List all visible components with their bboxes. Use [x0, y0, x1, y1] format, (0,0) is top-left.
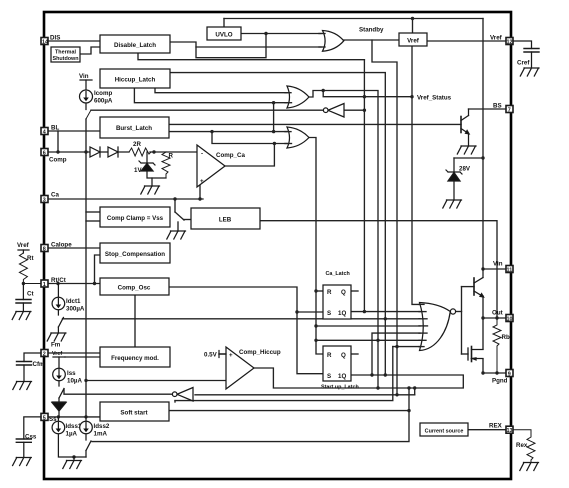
- net stub Vref for Iss: [52, 351, 65, 368]
- Stop_Compensation block: [100, 243, 170, 263]
- wire NOR output: [456, 311, 462, 313]
- ground under Rex: [520, 463, 539, 471]
- or-gate U-burst (2-input OR): [287, 127, 309, 148]
- svg-text:Fm: Fm: [51, 342, 61, 349]
- wire Standby vertical bus: [372, 40, 397, 395]
- wire MOSFET source to Pgnd: [482, 359, 484, 373]
- svg-text:DIS: DIS: [50, 35, 60, 42]
- svg-text:28V: 28V: [459, 166, 471, 173]
- wire Hiccup_Latch bottom tap 2 to hiccup OR: [134, 86, 287, 103]
- Start up_Latch block: [321, 346, 359, 391]
- current source Icomp 600uA: [79, 73, 113, 119]
- ground under Css: [13, 458, 32, 466]
- wire DIS pin to Disable_Latch: [48, 40, 100, 42]
- svg-text:14: 14: [42, 40, 48, 46]
- wire soft start top line: [175, 347, 393, 401]
- wire comp node to comparator: [150, 151, 197, 153]
- pin 1 Rt/Ct: [41, 277, 66, 288]
- svg-text:Thermal: Thermal: [55, 50, 76, 56]
- wire Out pin line: [483, 317, 505, 319]
- external Vref stub for Rt: [17, 242, 30, 253]
- wire soft-start control bus: [92, 388, 409, 442]
- Current source block: [420, 423, 468, 436]
- svg-text:Vref: Vref: [52, 351, 62, 357]
- wire Calope pin to Stop_Compensation: [48, 247, 100, 249]
- wire NOR input 7: [393, 346, 420, 348]
- svg-text:10µA: 10µA: [67, 378, 82, 385]
- svg-text:10: 10: [507, 317, 513, 323]
- svg-text:Rb: Rb: [502, 334, 510, 341]
- comparator Comp_Hiccup: [204, 347, 281, 389]
- Comp Clamp block: [100, 207, 170, 227]
- Comp_Osc block: [100, 278, 169, 295]
- comparator Comp_Cs: [197, 145, 245, 187]
- ground under Idss: [63, 457, 82, 469]
- nor-gate U-drv (7-input NOR driving output stage): [420, 303, 456, 351]
- capacitor Cfm on Fm pin: [17, 353, 46, 381]
- svg-text:Vref: Vref: [17, 242, 30, 249]
- transistor M1 output mosfet: [468, 347, 483, 362]
- wire zener 28V top: [454, 157, 483, 159]
- svg-text:Ca: Ca: [51, 192, 59, 199]
- Frequency mod block: [100, 347, 170, 367]
- svg-text:Rex: Rex: [516, 442, 528, 449]
- Vref regulator block: [399, 33, 427, 46]
- svg-text:Comp_Ca: Comp_Ca: [216, 152, 245, 159]
- svg-text:Vref_Status: Vref_Status: [417, 95, 452, 102]
- thermal shutdown block: [51, 47, 80, 62]
- wire NOR input 6: [316, 339, 420, 341]
- or-gate U-hiccup (2-input OR mid): [287, 86, 309, 108]
- wire Stop_Compensation lower stub: [95, 255, 101, 284]
- wire Soft start output: [169, 410, 409, 412]
- wire Disable_Latch top output to UVLO net: [170, 34, 266, 58]
- wire Vin rail column: [482, 19, 484, 270]
- wire NOR input 5 from 1Q line: [372, 333, 420, 375]
- ground under Q1 emitter: [457, 146, 476, 154]
- svg-text:1Q: 1Q: [338, 373, 346, 380]
- svg-text:R: R: [327, 289, 332, 296]
- wire top rail to right column: [224, 18, 483, 20]
- resistor 2R: [129, 141, 151, 156]
- wire LEB output to Out sense column: [260, 221, 497, 318]
- capacitor Cref on Vref pin: [513, 41, 539, 67]
- svg-text:Q: Q: [341, 352, 346, 359]
- svg-text:Iss: Iss: [67, 370, 76, 377]
- svg-text:BL: BL: [51, 125, 59, 132]
- resistor R: [162, 152, 174, 178]
- svg-text:7: 7: [508, 108, 511, 114]
- svg-text:Rt: Rt: [27, 255, 34, 262]
- wire Vref box top feed: [412, 19, 414, 34]
- wire Pgnd pin line: [483, 372, 505, 374]
- svg-text:+: +: [200, 178, 204, 185]
- svg-text:Comp Clamp = Vss: Comp Clamp = Vss: [107, 215, 164, 222]
- svg-text:Idss2: Idss2: [94, 423, 110, 430]
- svg-text:300µA: 300µA: [66, 306, 85, 313]
- current source Iss 10uA: [53, 368, 83, 398]
- svg-text:Ss: Ss: [49, 416, 57, 423]
- wire Vin pin to NPN collector: [483, 268, 505, 270]
- svg-text:Burst_Latch: Burst_Latch: [116, 125, 152, 132]
- svg-text:R: R: [169, 153, 174, 160]
- pin 7 BS: [493, 103, 513, 114]
- svg-text:1µA: 1µA: [66, 431, 78, 438]
- inverter U-inv2 (soft-start, pointing left): [172, 388, 193, 402]
- wire Comp_Hiccup output wrap: [253, 368, 463, 388]
- pin 11 Vin: [493, 261, 513, 274]
- ground under Cref: [520, 68, 539, 76]
- wire inverter riser: [414, 388, 416, 395]
- svg-text:6: 6: [43, 151, 46, 157]
- wire Comp_Cs output riser: [225, 144, 274, 167]
- LEB block: [191, 208, 260, 229]
- diode above Ss pin: [52, 398, 66, 417]
- ground under 1V zener: [141, 186, 160, 194]
- zener 28V: [446, 158, 471, 200]
- svg-text:BS: BS: [493, 103, 502, 110]
- capacitor Css on Ss pin: [16, 417, 41, 457]
- wire Disable branch to standby OR lower input: [196, 46, 321, 48]
- wire hiccup OR output column: [309, 91, 379, 389]
- svg-text:600µA: 600µA: [94, 98, 113, 105]
- UVLO block: [207, 27, 241, 40]
- resistor Rex on REX pin: [513, 430, 535, 462]
- svg-text:S: S: [327, 373, 331, 380]
- wire Burst_Latch output A to BS transistor base: [169, 123, 461, 125]
- pin 4 BL: [41, 125, 59, 136]
- svg-text:Vin: Vin: [493, 261, 503, 268]
- svg-text:+: +: [229, 352, 233, 359]
- wire BS pin to transistor: [469, 108, 506, 110]
- svg-text:Start up_Latch: Start up_Latch: [321, 385, 359, 391]
- wire Comp Clamp stubs: [86, 211, 100, 213]
- svg-text:Vin: Vin: [79, 73, 89, 80]
- wire Thermal Shutdown to Disable_Latch: [80, 47, 100, 54]
- pin 13 REX: [489, 423, 513, 435]
- svg-text:5: 5: [43, 415, 46, 421]
- capacitor Ct: [16, 284, 34, 312]
- wire Fm pin to Frequency mod: [48, 352, 100, 354]
- svg-text:1Q: 1Q: [338, 310, 346, 317]
- current source Idss1 1uA: [52, 417, 86, 457]
- svg-text:Ca_Latch: Ca_Latch: [326, 271, 350, 277]
- svg-text:Rt/Ct: Rt/Ct: [51, 277, 66, 284]
- wire Cs_Latch 1Q to NOR input: [351, 311, 420, 313]
- ground under Ct: [12, 312, 31, 320]
- svg-text:Cfm: Cfm: [33, 361, 46, 368]
- inverter U-inv1 (pointing left, bubble at left): [323, 104, 344, 118]
- svg-text:S: S: [327, 310, 331, 317]
- current source Idct1 300uA: [52, 284, 85, 334]
- pin 14 DIS: [41, 35, 60, 46]
- svg-text:Calope: Calope: [51, 242, 72, 249]
- resistor Rt: [19, 253, 33, 284]
- Burst_Latch block: [100, 117, 169, 138]
- wire BL tap down to Comp line: [57, 131, 59, 152]
- svg-text:1: 1: [43, 282, 46, 288]
- wire Burst branch to burst OR lower input: [212, 132, 287, 144]
- wire burst OR output down to latch resets: [308, 138, 324, 355]
- svg-text:Hiccup_Latch: Hiccup_Latch: [115, 77, 156, 84]
- svg-text:11: 11: [507, 268, 513, 274]
- wire inverter U-inv1 output to Icomp switch: [91, 109, 323, 111]
- svg-text:Vref: Vref: [407, 38, 420, 45]
- wire Cs_Latch Q stub: [351, 290, 358, 292]
- svg-text:Comp: Comp: [49, 157, 67, 164]
- pin 12 Vref: [490, 35, 513, 46]
- transistor Q1 BS npn: [461, 109, 469, 146]
- wire Vref_Status tap to NOR input 1: [412, 46, 420, 304]
- svg-text:Idct1: Idct1: [66, 298, 81, 305]
- Hiccup_Latch block: [100, 69, 170, 88]
- wire Comp_Hiccup plus input: [219, 353, 226, 355]
- pin 8 Calope: [41, 242, 72, 253]
- ground under LEB switch: [167, 231, 186, 239]
- wire Comp_Hiccup minus input: [86, 380, 226, 382]
- wire UVLO top tap: [223, 19, 225, 28]
- wire Icomp bus vertical: [85, 119, 87, 417]
- wire BL pin to Burst_Latch: [48, 130, 100, 132]
- pin 5 Ss: [41, 413, 57, 423]
- svg-text:2: 2: [43, 352, 46, 358]
- wire Current source to REX pin: [468, 429, 505, 431]
- wire inverter U-inv1 input to bus: [344, 109, 364, 111]
- svg-text:Soft start: Soft start: [120, 410, 147, 417]
- wire Cs switch to LEB: [174, 199, 176, 212]
- wire Vref_Status branch: [323, 91, 412, 97]
- svg-text:Cref: Cref: [517, 60, 530, 67]
- pin 3 Cs: [41, 192, 59, 204]
- wire NOR input 4: [316, 325, 420, 327]
- pin 10 Out: [492, 310, 513, 323]
- wire Cs_Latch S stub: [297, 311, 323, 313]
- ground under 28V zener: [443, 200, 462, 208]
- svg-text:1mA: 1mA: [94, 431, 108, 438]
- svg-text:R: R: [327, 352, 332, 359]
- svg-text:2R: 2R: [133, 141, 141, 148]
- svg-text:Vref: Vref: [490, 35, 503, 42]
- svg-text:3: 3: [43, 198, 46, 204]
- wire Comp_Osc to Frequency mod: [134, 295, 136, 347]
- svg-text:4: 4: [43, 130, 46, 136]
- svg-text:Disable_Latch: Disable_Latch: [114, 42, 156, 49]
- wire inverter U-inv2 input: [195, 394, 415, 396]
- svg-text:Icomp: Icomp: [94, 90, 112, 97]
- pin 2 Fm: [41, 342, 61, 358]
- svg-text:Shutdown: Shutdown: [52, 56, 78, 62]
- wire oscillator sync long line: [63, 318, 421, 320]
- ground under Idct1: [47, 333, 66, 341]
- diode D2 on Comp line: [108, 147, 129, 157]
- wire Vref box to Vref pin: [427, 40, 505, 42]
- Cs_Latch block: [323, 271, 351, 319]
- svg-text:Q: Q: [341, 289, 346, 296]
- wire Cs tap to Comp_Cs plus input: [198, 180, 201, 199]
- wire Burst_Latch output B to burst OR: [169, 131, 287, 133]
- wire hiccup OR vertical bus: [363, 60, 365, 312]
- wire NPN emitter to Out: [482, 296, 484, 349]
- svg-text:8: 8: [43, 247, 46, 253]
- svg-text:9: 9: [508, 372, 511, 378]
- svg-text:Comp_Hiccup: Comp_Hiccup: [239, 349, 281, 356]
- svg-text:Frequency mod.: Frequency mod.: [111, 355, 159, 362]
- current source Idss2 1mA: [80, 417, 110, 457]
- wire Ss pin line: [48, 416, 100, 418]
- wire Hiccup_Latch output A column: [170, 73, 385, 375]
- wire Disable_Latch bottom output bus: [138, 53, 364, 60]
- pin 9 Pgnd: [492, 370, 513, 385]
- chip border: [44, 12, 511, 479]
- wire inverter U-inv2 output to soft-start switch: [64, 389, 172, 394]
- wire driver split vertical: [461, 287, 463, 354]
- pin 6 Comp: [41, 149, 67, 164]
- svg-text:LEB: LEB: [219, 217, 232, 224]
- wire Rt/Ct external node: [22, 282, 41, 285]
- svg-text:0.5V: 0.5V: [204, 352, 218, 359]
- wire hiccup branch down to burst OR input: [273, 103, 275, 132]
- svg-text:Current source: Current source: [425, 429, 464, 435]
- Disable_Latch block: [100, 35, 170, 53]
- svg-text:13: 13: [507, 428, 513, 434]
- svg-text:REX: REX: [489, 423, 503, 430]
- wire Ca pin line: [48, 198, 203, 200]
- svg-text:12: 12: [507, 40, 513, 46]
- svg-text:Stop_Compensation: Stop_Compensation: [105, 251, 165, 258]
- svg-text:UVLO: UVLO: [215, 32, 232, 39]
- wire Cs_Latch R stub: [316, 290, 323, 292]
- diode D1 on Comp line: [90, 147, 108, 157]
- wire standby OR output to Vref box: [343, 39, 399, 41]
- wire Comp pin line: [48, 151, 90, 153]
- wire Vref net to Frequency mod: [65, 356, 100, 358]
- wire MOSFET gate: [462, 353, 469, 355]
- svg-text:Out: Out: [492, 310, 503, 317]
- wire driver NPN base: [462, 286, 475, 288]
- wire Comp_Osc output to latch S inputs: [169, 287, 323, 374]
- wire Hiccup_Latch bottom tap 1 to hiccup OR: [155, 86, 287, 93]
- Soft start block: [100, 402, 169, 421]
- svg-text:-: -: [201, 151, 203, 158]
- svg-text:Comp_Osc: Comp_Osc: [118, 285, 151, 292]
- zener 1V: [134, 152, 166, 186]
- transistor Q2 output npn: [474, 269, 484, 297]
- wire Start up_Latch Q stub: [351, 353, 358, 355]
- wire Rt/Ct pin line: [48, 283, 100, 285]
- svg-text:Pgnd: Pgnd: [492, 378, 508, 385]
- resistor Rb: [493, 318, 510, 373]
- svg-text:Standby: Standby: [359, 27, 384, 34]
- or-gate U-standby (2-input OR near UVLO): [323, 31, 344, 52]
- wire UVLO output to standby OR: [241, 33, 321, 35]
- ground under Cfm: [13, 382, 32, 390]
- wire gate input stubs (drawn over gate fills): [285, 34, 428, 347]
- svg-text:Ct: Ct: [27, 291, 34, 298]
